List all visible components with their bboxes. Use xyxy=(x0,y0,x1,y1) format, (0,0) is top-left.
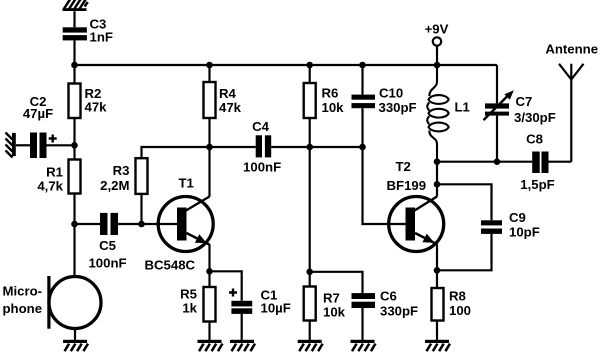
ground (R5) xyxy=(198,340,223,351)
ground (top, above C3) xyxy=(63,0,88,11)
wire (tank to antenna line) xyxy=(437,161,532,163)
wire (C9 top link) xyxy=(437,184,492,220)
svg-text:R8: R8 xyxy=(449,288,466,303)
capacitor C3 xyxy=(63,17,113,45)
svg-text:R4: R4 xyxy=(219,86,237,101)
svg-text:R3: R3 xyxy=(113,163,130,178)
svg-text:10µF: 10µF xyxy=(261,301,291,316)
node: C2/R2/R1 junction xyxy=(71,142,78,149)
svg-text:3/30pF: 3/30pF xyxy=(514,110,556,125)
resistor R8 xyxy=(432,288,472,321)
wire xyxy=(140,194,142,224)
svg-text:BF199: BF199 xyxy=(387,178,427,193)
svg-text:2,2M: 2,2M xyxy=(100,178,129,193)
svg-text:C10: C10 xyxy=(379,86,403,101)
node: C10/T2-base junction xyxy=(359,144,366,151)
svg-text:47k: 47k xyxy=(219,100,242,115)
wire xyxy=(361,108,363,147)
transistor T2 xyxy=(387,159,444,252)
wire xyxy=(241,314,243,341)
wire xyxy=(73,65,75,84)
node: +9V/L1 junction xyxy=(434,62,441,69)
wire xyxy=(208,65,210,82)
microphone xyxy=(3,276,102,329)
svg-text:phone: phone xyxy=(3,301,43,316)
svg-text:C4: C4 xyxy=(252,119,270,134)
svg-text:BC548C: BC548C xyxy=(145,258,196,273)
capacitor C6 xyxy=(352,288,419,318)
svg-text:330pF: 330pF xyxy=(379,100,417,115)
wire (T2 collector rail) xyxy=(436,162,438,197)
ground (microphone) xyxy=(63,340,88,351)
capacitor C10 xyxy=(352,86,417,116)
ground (C1) xyxy=(230,340,255,351)
wire xyxy=(361,308,363,341)
node: emitter/C9/R8 junction xyxy=(434,267,441,274)
resistor R2 xyxy=(69,84,108,119)
node: R4 top xyxy=(206,62,213,69)
wire xyxy=(208,245,210,271)
node: R3/C5/base junction xyxy=(138,221,145,228)
svg-text:Micro-: Micro- xyxy=(3,283,43,298)
wire (R6 to R7 rail) xyxy=(309,147,311,272)
wire xyxy=(549,161,572,163)
wire xyxy=(436,321,438,341)
wire xyxy=(309,272,311,287)
node: L1/collector/C7 junction xyxy=(434,158,441,165)
node: collector/C9 junction xyxy=(434,181,441,188)
resistor R6 xyxy=(304,83,344,118)
wire xyxy=(47,144,75,146)
svg-text:100nF: 100nF xyxy=(243,160,281,175)
node: R6/C4 junction xyxy=(306,144,313,151)
node: C3/bus junction xyxy=(71,62,78,69)
wire (T1 collector rail) xyxy=(208,147,210,197)
svg-text:Antenne: Antenne xyxy=(545,42,598,57)
capacitor C5 xyxy=(88,213,126,271)
svg-text:L1: L1 xyxy=(455,100,470,115)
wire (T1 base line) xyxy=(118,223,178,225)
svg-text:C6: C6 xyxy=(380,288,397,303)
wire (C9 bottom link) xyxy=(437,234,492,270)
wire xyxy=(309,118,311,147)
wire xyxy=(496,116,498,162)
wire xyxy=(73,224,75,277)
wire (supply bus) xyxy=(75,64,498,66)
svg-text:R5: R5 xyxy=(180,286,197,301)
svg-text:47k: 47k xyxy=(85,100,108,115)
svg-text:100nF: 100nF xyxy=(88,255,126,270)
svg-text:10pF: 10pF xyxy=(509,225,540,240)
wire xyxy=(208,271,210,287)
svg-text:1,5pF: 1,5pF xyxy=(520,177,554,192)
svg-text:47µF: 47µF xyxy=(23,106,53,121)
svg-text:C9: C9 xyxy=(509,210,526,225)
wire xyxy=(142,147,256,158)
resistor R4 xyxy=(204,82,242,118)
node: R1/C5/microphone junction xyxy=(71,221,78,228)
wire xyxy=(16,144,30,146)
node: C7/antenna-line junction xyxy=(494,158,501,165)
wire xyxy=(74,329,76,341)
svg-text:4,7k: 4,7k xyxy=(37,179,63,194)
svg-text:R7: R7 xyxy=(323,290,340,305)
svg-text:330pF: 330pF xyxy=(380,304,418,319)
transistor T1 xyxy=(145,176,214,273)
capacitor C7 (trimmer 3/30pF) xyxy=(484,90,556,125)
capacitor C8 xyxy=(520,131,554,192)
svg-text:1nF: 1nF xyxy=(90,29,113,44)
svg-text:R6: R6 xyxy=(322,86,339,101)
svg-text:1k: 1k xyxy=(182,300,197,315)
capacitor C1 xyxy=(229,288,291,316)
ground (R8) xyxy=(425,340,450,351)
capacitor C4 xyxy=(243,119,281,174)
wire xyxy=(210,271,242,301)
wire (to T2 base) xyxy=(363,147,406,224)
capacitor C9 xyxy=(481,210,540,240)
svg-text:R2: R2 xyxy=(85,86,102,101)
svg-text:C7: C7 xyxy=(516,94,533,109)
inductor L1 xyxy=(427,65,470,162)
wire xyxy=(436,244,438,270)
wire xyxy=(75,223,101,225)
svg-text:R1: R1 xyxy=(46,165,63,180)
antenna xyxy=(545,42,598,162)
wire xyxy=(309,321,311,341)
wire xyxy=(208,118,210,147)
ground (C6) xyxy=(351,340,376,351)
wire xyxy=(73,145,75,159)
resistor R1 xyxy=(37,160,80,194)
resistor R7 xyxy=(304,287,346,321)
wire xyxy=(208,322,210,341)
svg-text:100: 100 xyxy=(449,303,471,318)
node: R7/C6 junction xyxy=(306,269,313,276)
wire xyxy=(73,11,75,27)
svg-text:10k: 10k xyxy=(322,100,345,115)
svg-text:C8: C8 xyxy=(526,131,543,146)
svg-text:10k: 10k xyxy=(323,304,346,319)
svg-text:T1: T1 xyxy=(179,176,194,191)
svg-text:+9V: +9V xyxy=(425,22,449,37)
wire xyxy=(361,65,363,95)
ground (C2 input) xyxy=(6,133,16,158)
node: R4/C4/collector junction xyxy=(206,144,213,151)
wire xyxy=(271,146,362,148)
svg-text:C5: C5 xyxy=(99,238,116,253)
node: R6 top xyxy=(306,62,313,69)
node: emitter/R5/C1 junction xyxy=(206,268,213,275)
supply terminal +9V xyxy=(425,22,449,46)
wire xyxy=(73,40,75,65)
resistor R3 xyxy=(100,158,147,194)
wire xyxy=(73,118,75,145)
capacitor C2 xyxy=(23,94,57,158)
ground (R7) xyxy=(298,340,323,351)
wire (R7/C6 link) xyxy=(310,272,363,293)
resistor R5 xyxy=(180,286,215,321)
wire xyxy=(73,194,75,225)
wire xyxy=(436,270,438,288)
wire (bus corner to C7) xyxy=(496,65,498,103)
wire xyxy=(309,65,311,83)
svg-text:T2: T2 xyxy=(396,159,411,174)
wire xyxy=(436,46,438,65)
node: C10 top xyxy=(359,62,366,69)
